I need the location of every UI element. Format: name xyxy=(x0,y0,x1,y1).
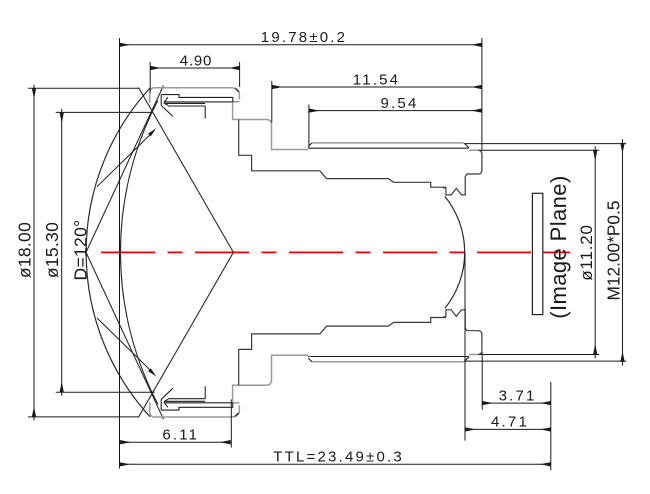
extension line: M12 thread top xyxy=(465,143,626,145)
front dome inner surface arc (ø15.30) xyxy=(120,100,158,404)
svg-text:6.11: 6.11 xyxy=(162,427,199,444)
refracted ray cone to dome vertex xyxy=(86,86,164,420)
angle label D=120° xyxy=(71,128,157,376)
extension line: front face vertical xyxy=(119,38,121,468)
extension line: ø18 top xyxy=(28,87,140,89)
extension line: rear flange common right xyxy=(481,38,483,150)
extension line: 11.54 left xyxy=(271,81,273,123)
svg-text:(Image Plane): (Image Plane) xyxy=(546,175,571,318)
dimension 6.11 xyxy=(120,427,230,444)
upper half of barrel profile xyxy=(150,88,482,253)
lower half of barrel profile (mirrored) xyxy=(150,252,482,417)
dimension TTL=23.49±0.3 xyxy=(120,449,551,466)
optical axis centerline (red dash-dot) xyxy=(101,251,559,253)
svg-text:M12.00*P0.5: M12.00*P0.5 xyxy=(604,201,624,301)
leader arrow lower xyxy=(97,318,154,373)
extension line: 9.54 left xyxy=(308,105,310,149)
extension line: ø11.20 top xyxy=(479,149,599,151)
extension line: 3.71 left lower xyxy=(481,352,483,409)
dimension 3.71 xyxy=(482,387,551,404)
dimension 4.90 xyxy=(150,53,239,70)
svg-text:9.54: 9.54 xyxy=(381,95,419,112)
svg-text:TTL=23.49±0.3: TTL=23.49±0.3 xyxy=(273,449,404,466)
extension line: 4.90 left xyxy=(149,62,151,93)
extension line: 4.90 right xyxy=(239,62,241,87)
extension line: ø15.30 bottom xyxy=(56,391,155,393)
extension line: 6.11 right xyxy=(230,399,232,447)
svg-text:4.90: 4.90 xyxy=(180,53,212,70)
extension line: ø15.30 top xyxy=(56,111,151,113)
svg-text:ø15.30: ø15.30 xyxy=(42,222,62,278)
svg-text:4.71: 4.71 xyxy=(491,414,529,431)
extension line: 4.71 left lower xyxy=(464,252,466,440)
extension line: M12 thread bottom xyxy=(465,360,626,362)
dimension 19.78±0.2 xyxy=(120,29,482,46)
svg-text:19.78±0.2: 19.78±0.2 xyxy=(261,29,347,46)
extension line: ø18 bottom xyxy=(28,416,139,418)
svg-text:ø11.20: ø11.20 xyxy=(577,224,596,280)
svg-text:ø18.00: ø18.00 xyxy=(15,222,35,278)
dimension ø18.00 xyxy=(15,88,35,417)
dimension ø11.20 xyxy=(577,150,596,355)
leader arrow upper xyxy=(97,131,154,186)
svg-text:3.71: 3.71 xyxy=(499,387,537,404)
dimension 9.54 xyxy=(309,95,482,112)
extension line: image plane xyxy=(550,382,552,470)
dimension M12.00*P0.5 xyxy=(604,143,624,362)
dim line overshoot ticks xyxy=(34,85,623,421)
dimension 11.54 xyxy=(272,72,482,89)
field-of-view ray upper/lower through axis point xyxy=(139,88,234,418)
svg-text:11.54: 11.54 xyxy=(353,72,400,89)
extension line: ø11.20 bottom xyxy=(479,354,599,356)
svg-text:D=120°: D=120° xyxy=(71,220,91,281)
front dome outer surface arc (ø18.00) xyxy=(86,88,150,417)
dimension ø15.30 xyxy=(42,112,62,392)
image plane glass bar xyxy=(532,193,542,314)
dimension 4.71 xyxy=(465,414,551,431)
